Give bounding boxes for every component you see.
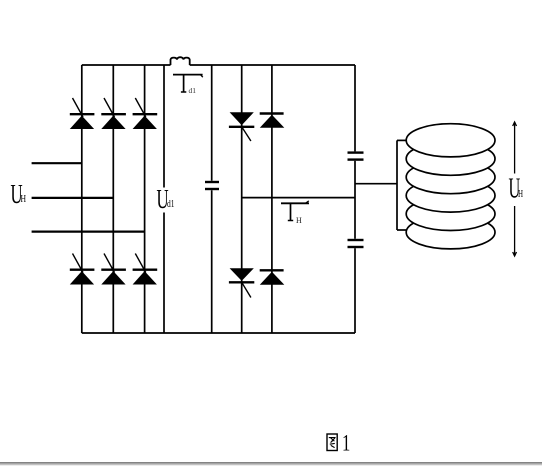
label Td1 (173, 75, 203, 92)
arrow UH (upper segment with head) (513, 122, 517, 174)
diode VD1 (inverter top feedback diode) (260, 114, 285, 128)
wire dc-link capacitor branch (lower) (211, 190, 213, 333)
svg-text:d1: d1 (167, 198, 174, 209)
wire inverter mid rail (242, 197, 355, 199)
wire resonant capacitor branch (middle) (354, 161, 356, 239)
label Ud1 (dc link voltage) (157, 184, 175, 214)
capacitor C3 (bottom compensating capacitor) (348, 240, 364, 247)
label UH (coil voltage) (509, 173, 524, 204)
svg-text:H: H (518, 188, 523, 200)
svg-text:d1: d1 (189, 86, 197, 95)
thyristor VT2 (rectifier top row, leg 2) (101, 98, 126, 129)
wire load tap (355, 183, 397, 185)
wire coil bottom connection (397, 229, 409, 231)
window bottom rule (0, 462, 542, 465)
arrow UH (lower segment with head) (513, 206, 517, 256)
inductor Ld1 (smoothing reactor bump on top rail) (171, 57, 190, 65)
label TH (281, 201, 309, 221)
wire top rail right segment (190, 64, 355, 66)
svg-text:H: H (296, 216, 302, 225)
wire dc-link capacitor branch (upper) (211, 65, 213, 181)
wire coil bracket vertical (396, 140, 398, 230)
wire rectifier leg 2 (112, 65, 114, 333)
caption 图1 (327, 434, 337, 451)
svg-text:1: 1 (342, 431, 350, 456)
thyristor VT4 (rectifier bottom row, leg 1) (70, 254, 95, 285)
thyristor V1 (inverter top) (229, 112, 254, 141)
thyristor VT1 (rectifier top row, leg 1) (70, 98, 95, 129)
thyristor VT3 (rectifier top row, leg 3) (133, 98, 158, 129)
wire phase input line 1 (32, 162, 82, 164)
svg-text:H: H (21, 194, 27, 206)
wire bottom rail (82, 332, 355, 334)
wire inverter diode leg (271, 65, 273, 333)
wire top rail left segment (82, 64, 171, 66)
thyristor VT6 (rectifier bottom row, leg 3) (133, 254, 158, 285)
label Un (mains input voltage) (11, 179, 27, 209)
wire Ud1 sense line (upper part) (163, 65, 165, 188)
capacitor C2 (top compensating capacitor) (348, 153, 364, 160)
wire inverter thyristor leg (241, 65, 243, 333)
thyristor VT5 (rectifier bottom row, leg 2) (101, 254, 126, 285)
induction coil (six stacked turns) (406, 124, 495, 249)
wire coil top connection (397, 139, 408, 141)
capacitor C1 (dc link) (205, 182, 219, 189)
wire rectifier leg 3 (144, 65, 146, 333)
wire phase input line 2 (32, 197, 114, 199)
wire resonant capacitor branch (bottom) (354, 248, 356, 333)
thyristor V2 (inverter bottom) (229, 268, 254, 297)
wire phase input line 3 (32, 231, 145, 233)
wire rectifier leg 1 (81, 65, 83, 333)
wire resonant capacitor branch (top) (354, 65, 356, 151)
wire Ud1 sense line (lower part) (163, 213, 165, 334)
diode VD2 (inverter bottom feedback diode) (260, 270, 285, 284)
